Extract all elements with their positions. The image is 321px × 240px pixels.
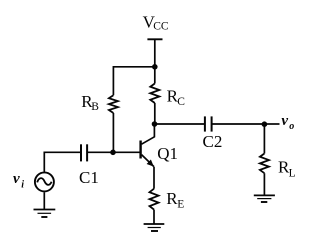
label Q1 bbox=[157, 144, 178, 163]
label RB bbox=[81, 92, 99, 113]
node B (base node junction) bbox=[110, 150, 116, 156]
source vi (AC sine source) bbox=[35, 172, 54, 191]
resistor RE bbox=[150, 189, 159, 210]
label RE bbox=[166, 189, 184, 211]
svg-text:CC: CC bbox=[153, 20, 169, 32]
wire VCC bar down to node A bbox=[154, 39, 156, 67]
wire RE to ground bbox=[153, 210, 155, 224]
wire C1 to base bbox=[87, 151, 139, 153]
wire node C to C2 bbox=[155, 123, 205, 125]
wire RB bottom to node B bbox=[112, 113, 114, 152]
svg-text:o: o bbox=[289, 121, 294, 132]
power VCC terminal bar bbox=[147, 38, 162, 40]
svg-text:Q1: Q1 bbox=[157, 144, 178, 163]
svg-text:B: B bbox=[91, 101, 99, 113]
resistor RC bbox=[150, 84, 159, 104]
resistor RB bbox=[109, 95, 118, 113]
label C1 bbox=[79, 168, 99, 187]
wire node A down to RC bbox=[154, 67, 156, 84]
label vi bbox=[13, 171, 24, 191]
ground (vi source) bbox=[34, 210, 56, 218]
svg-text:E: E bbox=[177, 199, 184, 211]
wire RL to ground bbox=[263, 173, 265, 195]
wire node D down to RL bbox=[263, 124, 265, 153]
wire C2 to node D bbox=[212, 123, 264, 125]
wire emitter to RE bbox=[153, 167, 155, 189]
label VCC bbox=[143, 12, 169, 32]
svg-text:L: L bbox=[289, 167, 296, 179]
svg-text:C: C bbox=[177, 96, 185, 108]
label C2 bbox=[203, 132, 223, 151]
svg-text:v: v bbox=[281, 113, 288, 129]
capacitor C1 bbox=[81, 144, 87, 161]
wire RB branch top bbox=[112, 66, 114, 95]
capacitor C2 bbox=[205, 116, 212, 131]
wire vi source to ground bbox=[43, 192, 45, 209]
svg-text:v: v bbox=[13, 171, 20, 187]
node A (VCC rail junction) bbox=[152, 64, 158, 70]
label vo bbox=[281, 113, 294, 132]
wire node D to vo terminal bbox=[264, 123, 279, 125]
svg-text:i: i bbox=[21, 180, 24, 191]
ground (RE) bbox=[144, 224, 165, 231]
label RL bbox=[278, 158, 296, 180]
node D (output node vo) bbox=[262, 121, 268, 127]
wire node A left to RB branch bbox=[113, 66, 154, 68]
wire vi source to C1 bbox=[44, 152, 81, 171]
ground (RL) bbox=[254, 195, 275, 202]
svg-text:C2: C2 bbox=[203, 132, 223, 151]
wire RC bottom to node C bbox=[154, 103, 156, 124]
node C (collector output node) bbox=[152, 121, 158, 127]
transistor Q1 bbox=[141, 124, 155, 167]
resistor RL bbox=[260, 154, 269, 174]
svg-text:C1: C1 bbox=[79, 168, 99, 187]
label RC bbox=[167, 86, 186, 108]
